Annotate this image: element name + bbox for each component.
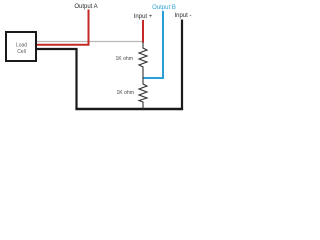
svg-text:Cell: Cell [17, 49, 26, 55]
wire: Input - (black) vertical down to bottom bus [181, 20, 183, 111]
resistor R1 1K ohm [115, 42, 147, 77]
svg-text:Load: Load [16, 43, 27, 49]
resistor R2 1K ohm [116, 77, 147, 109]
wire: sense line (gray) from load cell to Input + node [37, 41, 143, 43]
wire: ground/black from load cell to bottom bus [37, 49, 77, 109]
svg-text:Input +: Input + [134, 14, 153, 20]
wire: bottom bus (black) [75, 108, 183, 110]
wire: Output A (red) from load cell up to terminal [37, 10, 89, 45]
wire: Output B (blue) from terminal down and left to divider node [144, 11, 164, 78]
svg-text:Output A: Output A [74, 4, 97, 10]
svg-text:Output B: Output B [152, 5, 176, 11]
svg-text:1K ohm: 1K ohm [115, 56, 133, 62]
load cell LC1 (box) [6, 32, 36, 61]
svg-text:1K ohm: 1K ohm [116, 90, 134, 96]
wire: Input + (red) vertical [142, 20, 144, 43]
svg-text:Input -: Input - [174, 13, 191, 19]
